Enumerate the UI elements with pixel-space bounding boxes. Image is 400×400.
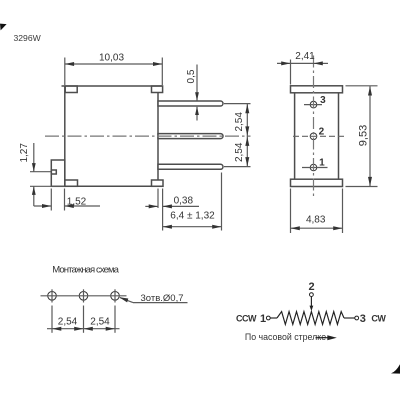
hole circle B: [79, 292, 88, 301]
svg-text:2: 2: [308, 281, 314, 293]
dimension line: [47, 328, 120, 330]
svg-text:6,4 ± 1,32: 6,4 ± 1,32: [170, 210, 215, 221]
svg-text:2: 2: [319, 127, 325, 138]
svg-text:1: 1: [260, 313, 266, 325]
centerline through middle pin: [45, 135, 251, 137]
body right edge: [157, 93, 159, 180]
terminal 2 circle: [310, 293, 314, 297]
hole circle A: [48, 292, 57, 301]
svg-text:0,5: 0,5: [186, 69, 197, 83]
screw slot notch: [51, 170, 56, 174]
hole 2: [310, 133, 317, 140]
dimension 0,38: [145, 189, 199, 231]
svg-text:CW: CW: [371, 314, 386, 324]
svg-text:1: 1: [319, 157, 325, 168]
adjustment screw protrusion: [51, 160, 65, 186]
terminal 3 lead: [344, 317, 355, 319]
dimension 4,83: [291, 189, 343, 234]
body top lid line: [62, 85, 163, 87]
dimension 6,4 ± 1,32: [163, 173, 222, 231]
svg-text:По часовой стрелке: По часовой стрелке: [245, 332, 326, 342]
dimension 1,27: [30, 143, 65, 206]
dimension 2,41: [277, 60, 328, 85]
hole 3: [310, 101, 317, 108]
svg-text:2,54: 2,54: [90, 317, 110, 328]
svg-text:3296W: 3296W: [14, 33, 42, 43]
svg-text:Монтажная схема: Монтажная схема: [52, 265, 119, 276]
dimension 9,53: [346, 86, 378, 187]
svg-text:3отв.Ø0,7: 3отв.Ø0,7: [141, 293, 184, 304]
svg-text:4,83: 4,83: [306, 214, 326, 225]
foot tab top-left: [65, 86, 77, 93]
svg-text:0,38: 0,38: [174, 195, 194, 206]
svg-text:2,54: 2,54: [58, 317, 78, 328]
svg-text:10,03: 10,03: [99, 53, 124, 64]
terminal 3 circle: [355, 316, 359, 320]
resistor zigzag: [277, 312, 344, 325]
body bottom line: [65, 185, 163, 187]
bottom flange: [291, 179, 343, 186]
watermark arrow top-left: [0, 24, 7, 31]
dimension 10,03: [65, 58, 163, 86]
hole circle C: [111, 292, 120, 301]
wiper arrowhead: [310, 306, 314, 311]
vertical centerline: [313, 56, 315, 197]
svg-text:2,41: 2,41: [295, 51, 315, 62]
leader 3 holes dia 0.7: [120, 298, 188, 303]
pin 2 (middle lead): [158, 134, 223, 139]
svg-text:2,54: 2,54: [234, 112, 245, 132]
dimension 2,54 top (pin pitch): [224, 104, 251, 167]
svg-text:9,53: 9,53: [357, 125, 369, 146]
pin 3 (top lead): [158, 101, 223, 106]
hole 1: [310, 164, 317, 171]
svg-text:CCW: CCW: [236, 314, 257, 324]
body left edge: [64, 86, 66, 186]
svg-text:2,54: 2,54: [234, 142, 245, 162]
dimension 1,52: [34, 189, 100, 211]
svg-text:3: 3: [360, 313, 366, 325]
top flange: [291, 86, 343, 93]
foot tab bottom-right: [152, 180, 164, 186]
crosshair verticals: [51, 289, 53, 302]
dimension 0,5: [196, 65, 198, 121]
terminal 1 lead: [270, 317, 277, 319]
body side walls: [294, 93, 296, 179]
svg-text:1,27: 1,27: [19, 143, 30, 163]
dimension 2,54 bottom (pin pitch): [245, 137, 249, 146]
extension lines: [51, 306, 53, 333]
svg-text:1,52: 1,52: [67, 196, 87, 207]
clockwise arrow: [316, 337, 329, 339]
terminal 1 circle: [266, 316, 270, 320]
svg-text:3: 3: [320, 95, 326, 106]
crosshair horizontal line: [41, 295, 127, 297]
wiper line: [310, 297, 312, 307]
watermark swoosh bottom-right: [391, 364, 400, 373]
pin 1 (bottom lead): [158, 164, 223, 169]
foot tab bottom-left: [65, 180, 78, 186]
foot tab top-right: [152, 86, 163, 93]
